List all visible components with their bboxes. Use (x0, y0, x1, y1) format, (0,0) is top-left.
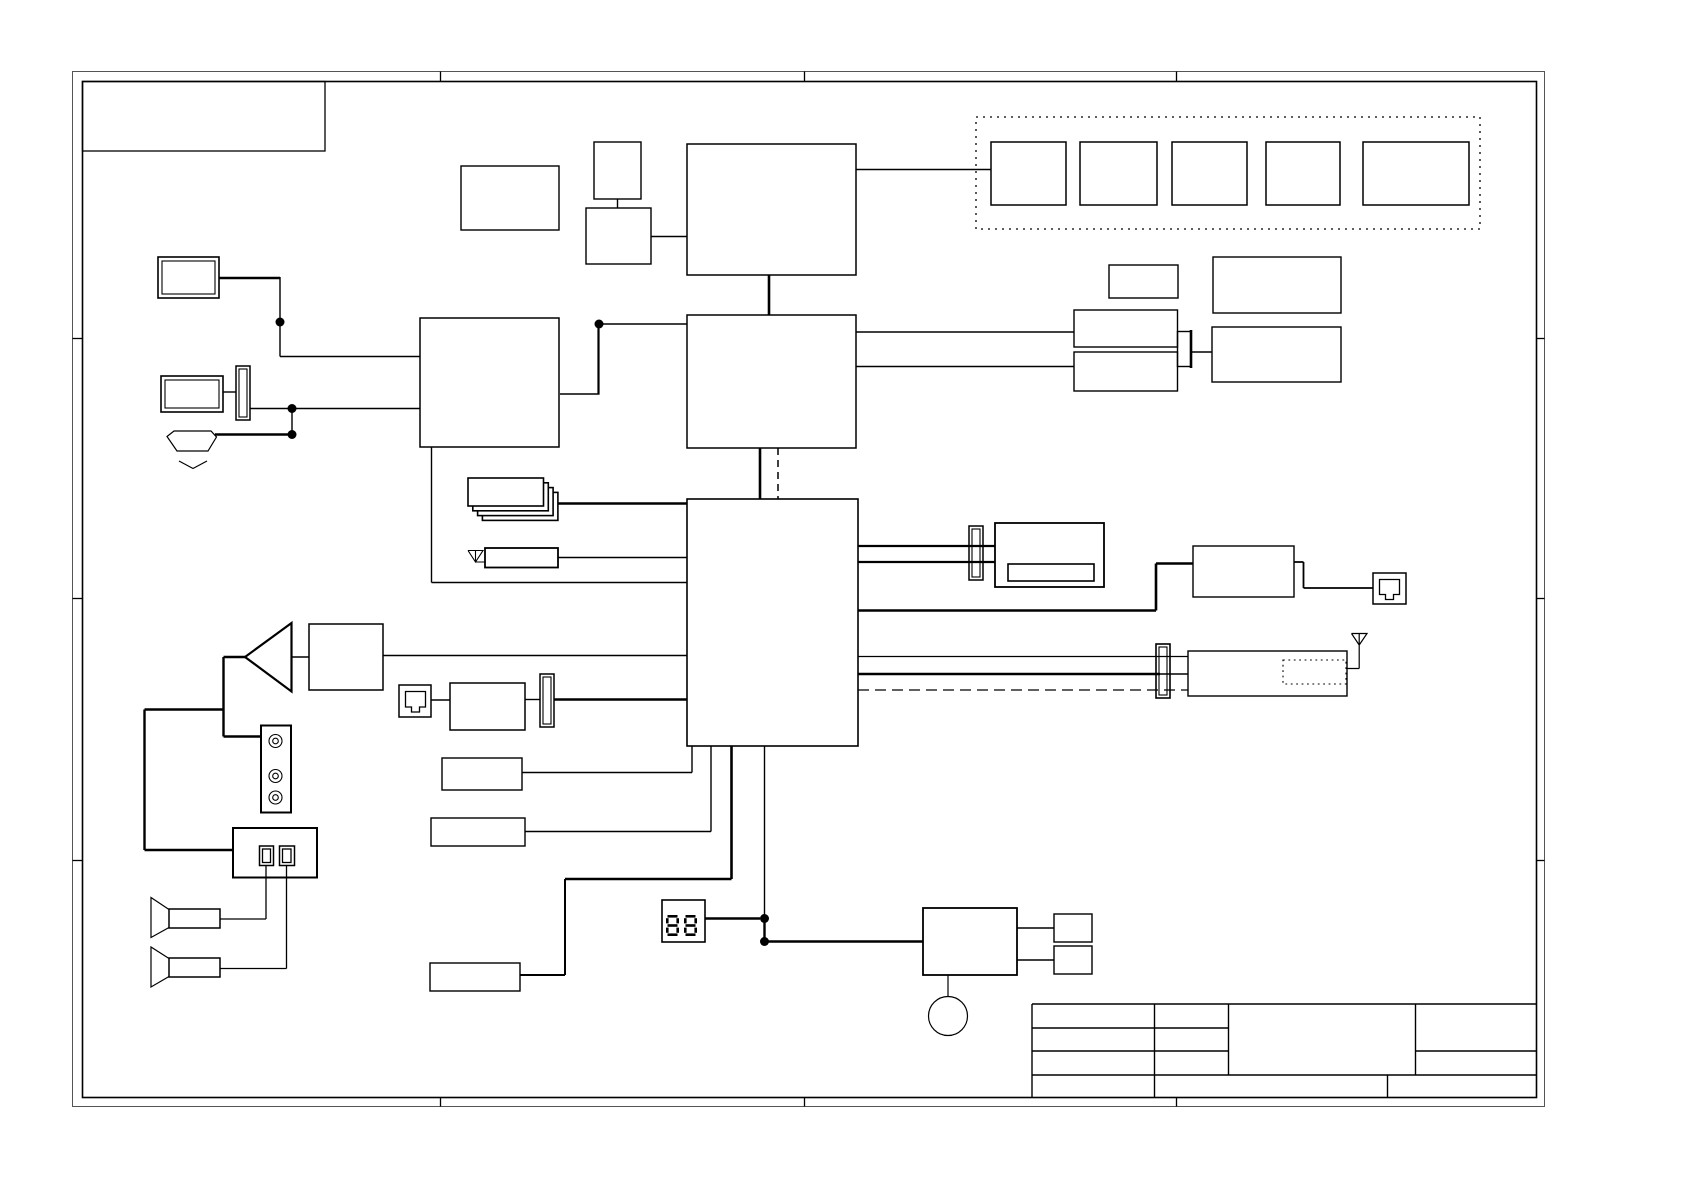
wire PSU out 1 (1017, 927, 1054, 929)
wire node D drop to TV1 (597, 324, 599, 394)
D1 inner bar (1008, 564, 1094, 581)
memory block S4 (1266, 142, 1340, 205)
junction dot E (760, 914, 769, 923)
wire to rect3 (520, 879, 565, 975)
wire amp to AB (292, 656, 310, 658)
block PB1 (1054, 914, 1092, 942)
wire TB1 to memory group (856, 169, 991, 171)
sheet outer border (73, 72, 1545, 1107)
junction dot B (288, 404, 297, 413)
wire M2-C1 (223, 391, 236, 393)
block rect1 (442, 758, 522, 790)
wire node F to PSU (765, 940, 924, 943)
memory block S2 (1080, 142, 1157, 205)
IF box (450, 683, 525, 730)
dashed line to RF box (858, 689, 1188, 691)
block TB1 (tuner/front-end) (687, 144, 856, 275)
connector C1 (236, 366, 250, 420)
wire C1 to node B (250, 409, 420, 435)
block B2 (small module) (594, 142, 641, 199)
wire AB to main IC (383, 655, 687, 657)
switch jack 1 (260, 846, 274, 866)
junction dot A (276, 318, 285, 327)
modular jack J1 (399, 685, 431, 717)
block RB3 (interface) (1193, 546, 1294, 597)
speaker switch box (233, 828, 317, 878)
zone tick bottom 1 (440, 1098, 442, 1107)
dotted memory group outline (976, 117, 1480, 229)
connector C4 (1156, 644, 1170, 698)
block PB2 (1054, 946, 1092, 974)
wire 7seg to node E (705, 917, 760, 919)
connector C3 (540, 674, 554, 727)
block MB1 (1074, 310, 1178, 347)
wire TB2 to MB1 (856, 331, 1074, 333)
bus TB2 to main IC (759, 448, 762, 499)
dashed line TB2 to main IC (777, 448, 779, 499)
top-left revision box (83, 82, 326, 152)
zone tick left 3 (73, 860, 83, 862)
RCA jack panel (261, 726, 291, 813)
junction dot C (288, 430, 297, 439)
tuner stick box (485, 548, 558, 568)
connector CB (bold edge) (1178, 330, 1192, 368)
wire M1 to node (219, 277, 280, 279)
wire rect2 to main IC (525, 746, 711, 832)
CRT monitor M2 (161, 376, 223, 412)
block RB1 (upper right) (1213, 257, 1341, 313)
block B3 (sub module) (586, 208, 651, 264)
block rect2 (431, 818, 525, 846)
wire B3 to tuner block (651, 236, 687, 238)
bus node E-F (763, 919, 765, 942)
junction dot D (595, 320, 604, 329)
antenna A2 (1347, 634, 1367, 669)
block B1 (isolated option block) (461, 166, 559, 230)
RCA jack 1 (269, 735, 282, 748)
7-segment display box (662, 900, 705, 942)
memory block S3 (1172, 142, 1247, 205)
wire node D to TB2 (599, 323, 687, 325)
CRT monitor M1 (158, 257, 219, 298)
wire to TV1 (280, 322, 420, 357)
block TB2 (IF / chroma) (687, 315, 856, 448)
7-segment digit 1 (666, 915, 679, 936)
bus branch to speaker switch (145, 710, 234, 851)
sheet inner frame (83, 82, 1537, 1098)
switch jack 2 (280, 846, 295, 866)
zone tick bottom 2 (804, 1098, 806, 1107)
wire cards to main IC (558, 502, 687, 504)
wire node drop (279, 277, 281, 322)
wire rect1 to main IC (522, 746, 692, 773)
wire stick to main IC (558, 557, 687, 559)
title block (1032, 1004, 1537, 1098)
connector C2 (969, 526, 983, 580)
zone tick left 2 (73, 598, 83, 600)
speaker R (151, 947, 220, 987)
power supply block (923, 908, 1017, 975)
wire main IC to D1 lower (858, 561, 995, 563)
wire main IC to D1 upper (858, 545, 995, 547)
main IC block (687, 499, 858, 746)
RF module box (1188, 651, 1347, 696)
zone tick right 2 (1537, 598, 1545, 600)
wire PSU to plug (947, 975, 949, 997)
memory block S1 (991, 142, 1066, 205)
zone tick right 1 (1537, 338, 1545, 340)
audio block AB (309, 624, 383, 690)
zone tick right 3 (1537, 860, 1545, 862)
zone tick top 1 (440, 72, 442, 82)
wire CB to RB2 (1191, 351, 1212, 353)
wire main IC to node E (764, 746, 766, 918)
zone tick left 1 (73, 338, 83, 340)
dotted sub-module (1283, 660, 1346, 684)
RCA jack 2 (269, 770, 282, 783)
wire J1 to IF box (431, 699, 450, 701)
wire jack1 to speaker L (220, 866, 266, 920)
wire TV1 bottom to main IC (432, 447, 688, 583)
stacked cards symbol (468, 478, 558, 520)
AC plug circle (929, 997, 968, 1036)
wire RB3 to jack J2 (1294, 562, 1373, 588)
speaker L (151, 898, 220, 938)
wire jack2 to speaker R (220, 866, 287, 969)
block D1 (drive unit) (995, 523, 1104, 587)
modular jack J2 (1373, 573, 1406, 604)
bus amp to RCA panel (224, 657, 262, 737)
antenna A1 (468, 551, 485, 563)
block RB2 (1212, 327, 1341, 382)
zone tick top 3 (1176, 72, 1178, 82)
bus main IC to RF box line 2 (858, 673, 1160, 676)
block TV1 (video processor) (420, 318, 559, 447)
wire IF box to connector C3 (525, 699, 540, 701)
wire B2-B3 (617, 199, 619, 208)
wire PSU out 2 (1017, 959, 1054, 961)
bus main IC down-left (565, 746, 732, 879)
RCA jack 3 (269, 791, 282, 804)
remote sensor symbol (167, 431, 217, 451)
zone tick top 2 (804, 72, 806, 82)
bus C3 to main IC (554, 698, 687, 700)
bus main IC to RB3 (858, 564, 1193, 611)
memory block S5 (1363, 142, 1469, 205)
chevron mark (179, 461, 207, 469)
block rect3 (430, 963, 520, 991)
junction dot F (760, 937, 769, 946)
wire remote sensor to node C (215, 433, 292, 435)
zone tick bottom 3 (1176, 1098, 1178, 1107)
wire TB2 to MB2 (856, 366, 1074, 368)
wire main IC to RF box line 1 (858, 656, 1188, 658)
audio amp triangle (245, 623, 292, 692)
7-segment digit 2 (684, 915, 697, 936)
block UM (small upper-mid) (1109, 265, 1178, 298)
block MB2 (1074, 352, 1178, 391)
bus TB1-TB2 (768, 275, 771, 315)
